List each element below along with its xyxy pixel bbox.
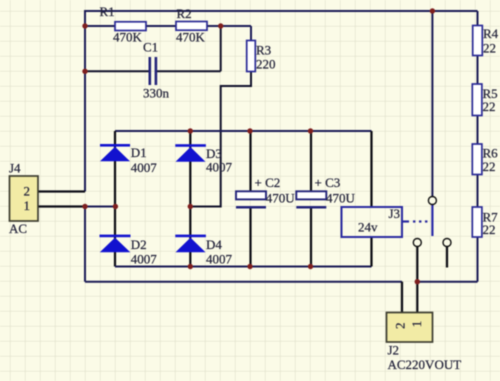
wire J3 coil pin top (370, 131, 372, 207)
svg-text:4007: 4007 (131, 160, 158, 175)
svg-text:AC220VOUT: AC220VOUT (388, 357, 462, 372)
resistor R1 (100, 4, 147, 45)
svg-text:4007: 4007 (131, 252, 158, 267)
wire D1 D2 string (114, 131, 116, 267)
svg-text:2: 2 (393, 323, 408, 330)
svg-text:D2: D2 (131, 237, 147, 252)
relay contact circle 2 (443, 239, 451, 247)
wire R1 R2 row (85, 26, 251, 41)
wire bridge bottom rail (115, 266, 372, 268)
junction dot mid D3 D4 (188, 204, 193, 209)
svg-text:+ C2: + C2 (255, 175, 281, 190)
wire mid left (85, 206, 115, 208)
svg-text:D1: D1 (131, 145, 147, 160)
svg-text:4007: 4007 (206, 252, 233, 267)
junction dot top rail C2 (247, 128, 252, 133)
svg-text:R1: R1 (100, 4, 115, 19)
wire J4 pin2 lead (38, 190, 85, 192)
diode D1 (100, 144, 157, 175)
relay dotted link stub (403, 220, 410, 222)
svg-text:470U: 470U (326, 191, 356, 206)
svg-text:470K: 470K (176, 30, 206, 45)
wire relay contact2 stub (446, 247, 448, 268)
svg-text:R3: R3 (256, 43, 271, 58)
resistor R3 (247, 41, 276, 72)
svg-text:J3: J3 (389, 206, 401, 221)
svg-text:R2: R2 (177, 6, 192, 21)
wire right resistor column (417, 11, 477, 282)
connector J4 (9, 161, 38, 237)
relay pivot contact (428, 197, 436, 205)
capacitor C2 (236, 175, 295, 207)
junction dot mid D1 D2 (113, 204, 118, 209)
svg-text:D4: D4 (206, 237, 222, 252)
relay armature (431, 205, 433, 237)
resistor R5 (472, 84, 497, 116)
relay contact circle 1 (413, 239, 421, 247)
svg-text:2: 2 (24, 184, 31, 199)
junction dot bottom rail C3 (308, 264, 313, 269)
wire left lower vertical (84, 207, 86, 282)
wire R3 bottom path (190, 72, 251, 207)
wire top net (85, 10, 478, 12)
svg-text:22: 22 (483, 99, 496, 114)
junction dot node A left R1 (82, 23, 87, 28)
junction dot bottom rail D4 (188, 264, 193, 269)
svg-text:C1: C1 (143, 40, 158, 55)
junction dot bottom rail C2 (247, 264, 252, 269)
svg-text:24v: 24v (358, 220, 378, 235)
svg-text:AC: AC (9, 221, 27, 236)
capacitor C3 (296, 175, 355, 207)
diode D3 (175, 144, 232, 174)
junction dot top rail D3 (188, 128, 193, 133)
svg-text:470K: 470K (113, 30, 143, 45)
svg-text:1: 1 (409, 321, 424, 328)
svg-text:J4: J4 (9, 161, 21, 176)
wire J4 pin1 lead (38, 205, 85, 207)
svg-text:R4: R4 (483, 26, 499, 41)
wire bridge top rail (115, 130, 372, 132)
wire C3 leads (310, 131, 312, 267)
junction dot node A left C1 (82, 69, 87, 74)
wire left upper vertical (84, 10, 86, 192)
wire C2 leads (249, 131, 251, 267)
junction dot top wire relay (430, 8, 435, 13)
svg-text:330n: 330n (143, 86, 170, 101)
junction dot mid J4 pin1 (82, 204, 87, 209)
svg-text:22: 22 (483, 40, 496, 55)
wire relay contact1 to J2 pin1 (416, 247, 418, 313)
diode D4 (175, 235, 232, 267)
wire relay common vertical (431, 11, 433, 197)
svg-text:4007: 4007 (206, 160, 233, 175)
resistor R4 (473, 26, 499, 56)
svg-text:J2: J2 (388, 343, 400, 358)
wire bottom long (85, 281, 402, 283)
wire D3 D4 string (189, 131, 191, 267)
relay J3 (342, 206, 403, 237)
svg-text:22: 22 (483, 222, 496, 237)
diode D2 (100, 235, 158, 267)
connector J2 (387, 313, 462, 372)
junction dot node B right of R2 (218, 23, 223, 28)
junction dot bottom J2 pin1 (415, 279, 420, 284)
wire J2 pin2 lead (401, 282, 403, 313)
svg-text:470U: 470U (266, 191, 296, 206)
resistor R2 (176, 6, 207, 45)
wire J3 coil pin bottom (370, 237, 372, 267)
wire C1 row (85, 26, 221, 71)
junction dot top rail C3 (308, 128, 313, 133)
svg-text:220: 220 (256, 57, 276, 72)
relay dotted link (413, 220, 430, 222)
resistor R6 (472, 144, 498, 175)
svg-text:1: 1 (24, 198, 31, 213)
resistor R7 (472, 207, 498, 237)
svg-text:22: 22 (483, 159, 496, 174)
capacitor C1 (143, 40, 170, 101)
svg-text:+ C3: + C3 (315, 175, 341, 190)
